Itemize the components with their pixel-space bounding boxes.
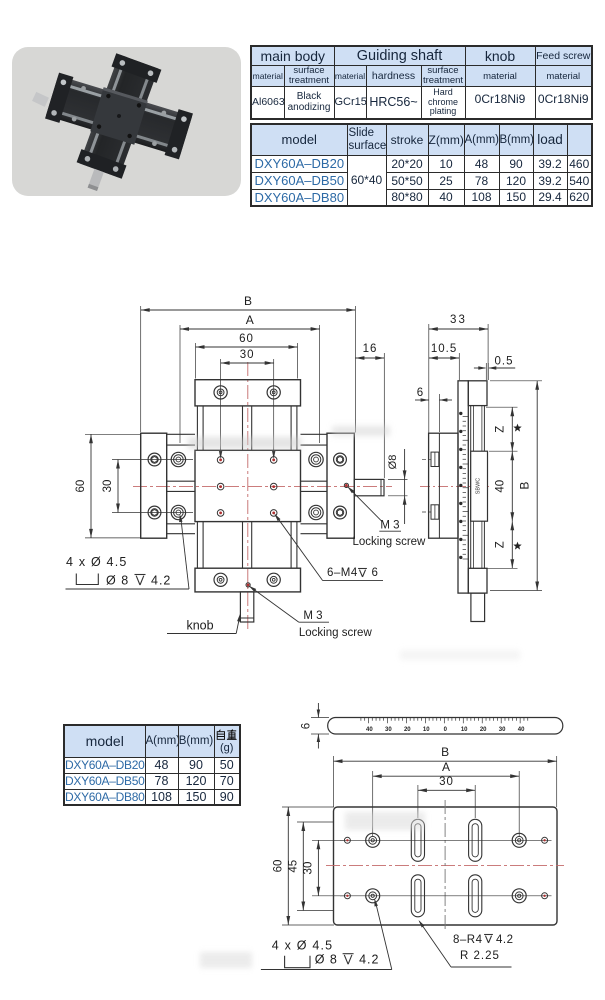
svg-text:20: 20 <box>480 727 487 733</box>
svg-text:45: 45 <box>288 860 300 873</box>
svg-text:Ø 8: Ø 8 <box>106 574 129 588</box>
svg-text:8–R4: 8–R4 <box>453 934 483 946</box>
svg-text:20: 20 <box>404 727 411 733</box>
svg-text:30: 30 <box>240 349 255 361</box>
svg-text:knob: knob <box>186 619 213 633</box>
svg-text:SBWC: SBWC <box>476 478 482 495</box>
svg-text:6: 6 <box>301 723 313 729</box>
svg-text:60: 60 <box>239 333 254 345</box>
svg-text:60: 60 <box>273 860 285 873</box>
svg-text:0: 0 <box>444 727 448 733</box>
svg-text:Locking screw: Locking screw <box>299 627 373 639</box>
svg-text:A: A <box>442 760 450 774</box>
svg-text:0.5: 0.5 <box>495 356 514 368</box>
svg-text:4.2: 4.2 <box>151 574 171 588</box>
svg-text:33: 33 <box>450 314 467 326</box>
svg-text:B: B <box>441 745 449 759</box>
svg-text:Locking screw: Locking screw <box>353 536 427 548</box>
svg-text:10: 10 <box>423 727 430 733</box>
svg-text:30: 30 <box>385 727 392 733</box>
svg-text:40: 40 <box>495 480 507 493</box>
svg-text:M 3: M 3 <box>380 520 399 532</box>
svg-text:4 x Ø 4.5: 4 x Ø 4.5 <box>66 555 128 569</box>
svg-text:10: 10 <box>461 727 468 733</box>
svg-text:R 2.25: R 2.25 <box>460 950 500 962</box>
svg-text:30: 30 <box>439 776 454 788</box>
svg-text:6–M4: 6–M4 <box>327 567 358 579</box>
svg-text:60: 60 <box>75 480 87 493</box>
svg-text:40: 40 <box>518 727 525 733</box>
svg-text:16: 16 <box>363 343 378 355</box>
svg-text:B: B <box>244 294 252 308</box>
svg-text:10.5: 10.5 <box>431 343 457 355</box>
svg-text:M 3: M 3 <box>303 610 322 622</box>
svg-text:6: 6 <box>417 387 423 399</box>
svg-text:Ø 8: Ø 8 <box>315 952 338 966</box>
svg-text:4.2: 4.2 <box>496 934 514 946</box>
svg-text:30: 30 <box>499 727 506 733</box>
svg-text:Ø8: Ø8 <box>387 455 399 470</box>
svg-text:A: A <box>246 313 254 327</box>
svg-text:6: 6 <box>372 567 378 579</box>
svg-text:30: 30 <box>102 480 114 493</box>
svg-text:4 x Ø 4.5: 4 x Ø 4.5 <box>272 939 334 953</box>
svg-text:B: B <box>518 482 532 490</box>
svg-text:Z: Z <box>495 426 507 433</box>
svg-text:40: 40 <box>366 727 373 733</box>
svg-text:4.2: 4.2 <box>359 952 379 966</box>
svg-text:30: 30 <box>303 862 315 875</box>
svg-text:Z: Z <box>495 541 507 548</box>
